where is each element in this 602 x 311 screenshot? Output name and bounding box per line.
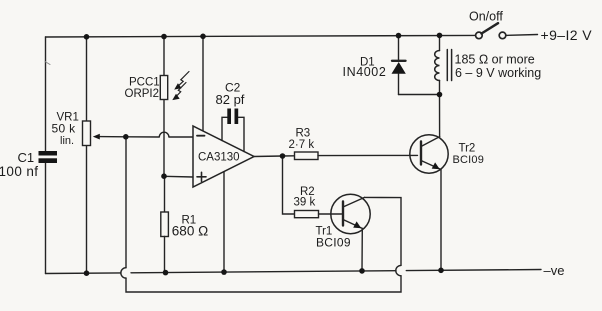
wire left vertical branch (C1 branch) [45,37,50,274]
junction dots bottom rail [84,268,444,277]
wire op-amp output [254,155,283,158]
svg-text:6 – 9 V working: 6 – 9 V working [455,66,541,80]
svg-text:100 nf: 100 nf [0,164,38,179]
wire bottom rail -ve [46,270,542,274]
relay core lines [447,50,451,81]
wire op-amp V- pin to bottom rail [223,172,225,272]
svg-text:IN4002: IN4002 [343,65,387,79]
svg-text:39 k: 39 k [294,197,316,209]
svg-text:R3: R3 [296,128,311,140]
wire feedback Tr1 collector to wiper node [121,137,401,292]
op-amp U1 CA3130 [193,126,254,187]
svg-text:185 Ω or more: 185 Ω or more [455,53,535,67]
wire + input from PCC1/R1 node [164,175,193,178]
capacitor C1 [39,151,58,163]
wire wiper to minus input (hop over PCC1 lead) [126,132,194,137]
label +9-12 V [541,27,593,43]
svg-text:+9–I2 V: +9–I2 V [541,27,593,43]
label R3 [289,128,315,152]
label D1 [343,57,387,80]
svg-text:82 pf: 82 pf [216,92,245,107]
svg-text:50 k: 50 k [52,122,77,136]
wire Tr2 emitter to bottom rail [440,170,442,271]
relay coil [435,36,440,95]
resistor R2 with leads [283,156,342,218]
wire Tr1 emitter to bottom rail [361,229,363,271]
label On/off [469,10,503,24]
label C1 value [0,150,38,179]
switch S1 On/off [476,23,538,39]
svg-text:C1: C1 [18,150,35,165]
label relay value [455,53,542,81]
VR1 wiper arrow [93,134,126,140]
svg-text:2·7 k: 2·7 k [289,139,315,151]
potentiometer VR1 [83,121,91,146]
svg-text:ORPI2: ORPI2 [125,88,160,100]
svg-text:On/off: On/off [469,10,503,24]
wire Tr2 collector up to relay node [439,95,441,137]
label R1 [172,215,208,239]
label PCC1 [125,77,160,101]
wire D1 bottom to relay bottom [399,94,440,96]
label Tr1 [316,225,351,249]
label CA3130 [198,152,240,164]
svg-text:PCC1: PCC1 [129,77,160,89]
svg-text:BCI09: BCI09 [453,154,485,166]
label C2 value [216,81,245,108]
label R2 [294,186,316,209]
transistor Q1 Tr1 BC109 [331,194,370,233]
junction dot wiper node [123,134,129,140]
svg-text:CA3130: CA3130 [198,152,240,164]
svg-text:lin.: lin. [60,135,74,147]
svg-text:BCI09: BCI09 [316,236,351,250]
junction dot output node [280,153,286,159]
label VR1 [52,112,79,148]
wire op-amp V+ pin from rail [202,36,204,131]
junction dots top rail [84,33,443,40]
junction dot plus input node [161,173,167,179]
LDR PCC1 body [160,76,167,100]
wire top rail +V [46,35,476,37]
capacitor C2 leads [222,117,244,151]
potentiometer VR1 branch wire [86,37,88,273]
label Tr2 [453,143,485,166]
label -ve [544,263,565,278]
svg-text:Tr2: Tr2 [459,143,476,155]
junction dot relay bottom node [437,92,443,98]
LDR light arrows [172,72,189,101]
svg-text:–ve: –ve [544,263,565,278]
transistor Q2 Tr2 BC109 [410,135,448,173]
svg-text:680 Ω: 680 Ω [172,224,208,239]
diode D1 1N4002 [392,36,406,95]
capacitor C2 plates [227,109,238,125]
LDR PCC1 branch wire [163,37,165,176]
resistor R1 lead and body [161,176,169,273]
resistor R3 with leads [283,152,418,160]
